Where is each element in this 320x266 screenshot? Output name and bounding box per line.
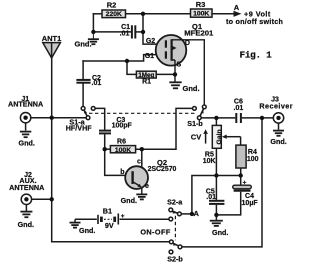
svg-text:9V: 9V: [105, 221, 114, 230]
svg-text:.01: .01: [234, 105, 244, 112]
svg-text:1Meg: 1Meg: [138, 72, 154, 79]
svg-text:R4: R4: [248, 149, 257, 156]
svg-text:100K: 100K: [193, 11, 209, 18]
svg-text:Gnd.: Gnd.: [18, 220, 34, 229]
svg-text:S2-a: S2-a: [167, 197, 183, 206]
svg-text:A: A: [234, 3, 240, 12]
svg-text:HF/VHF: HF/VHF: [66, 124, 93, 133]
svg-text:R3: R3: [196, 0, 206, 9]
svg-text:R6: R6: [117, 139, 126, 146]
svg-text:R1: R1: [142, 78, 151, 85]
svg-text:c: c: [137, 158, 141, 165]
svg-text:to on/off switch: to on/off switch: [226, 17, 283, 26]
svg-text:Gnd.: Gnd.: [19, 138, 35, 147]
svg-text:S: S: [176, 62, 181, 69]
svg-text:e: e: [145, 183, 149, 190]
svg-text:ANTENNA: ANTENNA: [8, 100, 43, 109]
svg-text:A: A: [194, 209, 200, 218]
svg-text:Gnd.: Gnd.: [79, 226, 95, 235]
svg-text:.01: .01: [92, 80, 102, 87]
svg-text:Gnd.: Gnd.: [270, 137, 286, 146]
svg-text:Gnd.: Gnd.: [183, 84, 200, 93]
svg-text:10µF: 10µF: [242, 200, 259, 207]
svg-text:G1: G1: [145, 53, 154, 60]
svg-text:R2: R2: [107, 1, 117, 10]
svg-text:.01: .01: [120, 30, 130, 37]
svg-text:220K: 220K: [106, 11, 122, 18]
svg-text:ANTENNA: ANTENNA: [9, 183, 44, 192]
svg-text:100pF: 100pF: [112, 123, 133, 130]
svg-text:CV: CV: [191, 133, 201, 142]
svg-text:.01: .01: [206, 194, 216, 201]
svg-text:Gain: Gain: [216, 129, 223, 144]
svg-text:S2-b: S2-b: [167, 254, 183, 263]
svg-text:B1: B1: [103, 206, 112, 215]
svg-text:Gnd.: Gnd.: [75, 39, 92, 48]
svg-text:100: 100: [247, 156, 259, 163]
svg-text:Gnd.: Gnd.: [212, 228, 228, 237]
svg-text:ON-OFF: ON-OFF: [140, 228, 171, 237]
svg-text:MFE201: MFE201: [184, 29, 214, 38]
svg-text:100K: 100K: [115, 147, 131, 154]
svg-text:+: +: [121, 213, 125, 220]
svg-text:D: D: [185, 40, 190, 47]
svg-text:G2: G2: [146, 38, 155, 45]
svg-text:Receiver: Receiver: [259, 102, 293, 111]
svg-text:S1-b: S1-b: [187, 119, 203, 128]
svg-text:Gnd.: Gnd.: [121, 196, 137, 205]
svg-text:+: +: [243, 180, 247, 187]
svg-text:b: b: [120, 169, 124, 176]
svg-text:Fig. 1: Fig. 1: [240, 49, 273, 60]
svg-text:2SC2570: 2SC2570: [148, 166, 177, 173]
svg-text:10K: 10K: [203, 158, 216, 165]
svg-text:ANT1: ANT1: [42, 34, 62, 43]
